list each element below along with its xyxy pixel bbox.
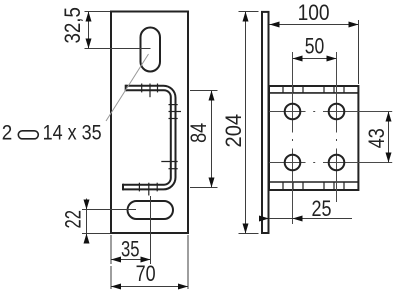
dim 25 [269, 218, 352, 220]
top band ticks [283, 86, 344, 93]
hatch ticks vertical pair upper [169, 104, 178, 106]
bottom band ticks [283, 182, 344, 190]
hatch ticks bottom pair [138, 183, 140, 192]
bent flange edge (C-shape) inner [123, 90, 171, 185]
vertical plate edge-on (strip) [262, 12, 269, 233]
hole top-left [285, 104, 301, 120]
centerlines [269, 52, 392, 224]
bottom band line [269, 181, 358, 183]
svg-text:84: 84 [186, 123, 211, 143]
dim 35 line [111, 259, 151, 261]
dim 32,5 line [88, 12, 90, 49]
dim 70 extension lines [187, 235, 189, 289]
C-shape left caps [125, 85, 127, 92]
horizontal plate outline [269, 86, 358, 190]
hole top-right [329, 104, 345, 120]
hatch ticks vertical pair lower [161, 161, 177, 163]
dim 70 line [111, 286, 188, 288]
dim 100 [358, 20, 360, 84]
slot top (14x35 vertical) [141, 28, 161, 72]
svg-text:100: 100 [298, 0, 330, 25]
dim 204 line [245, 12, 247, 234]
bent flange edge (C-shape) outer [123, 86, 176, 190]
svg-text:35: 35 [121, 237, 140, 262]
svg-text:70: 70 [136, 261, 156, 286]
svg-text:204: 204 [221, 114, 246, 148]
top band line [269, 92, 358, 94]
dim 32,5 extension lines [85, 11, 111, 13]
dim 22 extension lines [82, 209, 136, 211]
svg-text:2: 2 [2, 121, 13, 145]
plate outline (front view 70x204) [111, 12, 188, 234]
dim 22 line with outside arrows [86, 199, 88, 244]
svg-text:22: 22 [60, 210, 85, 229]
dim 35 extension lines [110, 235, 112, 264]
svg-text:32,5: 32,5 [60, 7, 85, 44]
slot bottom (14x35 horizontal) [128, 201, 174, 219]
dim 204 extension lines [239, 11, 259, 13]
dim 43 [388, 112, 390, 163]
hole bottom-left [285, 155, 301, 171]
svg-text:25: 25 [312, 196, 332, 221]
dim 84 line [211, 91, 213, 188]
dim 50 [293, 58, 337, 60]
dim 84 extension lines [190, 90, 218, 92]
hatch ticks top pair [141, 84, 143, 93]
svg-text:50: 50 [305, 34, 325, 59]
leader line for slot label [106, 54, 149, 121]
svg-text:14 x 35: 14 x 35 [43, 121, 102, 145]
hole bottom-right [329, 155, 345, 171]
svg-text:43: 43 [364, 128, 389, 148]
